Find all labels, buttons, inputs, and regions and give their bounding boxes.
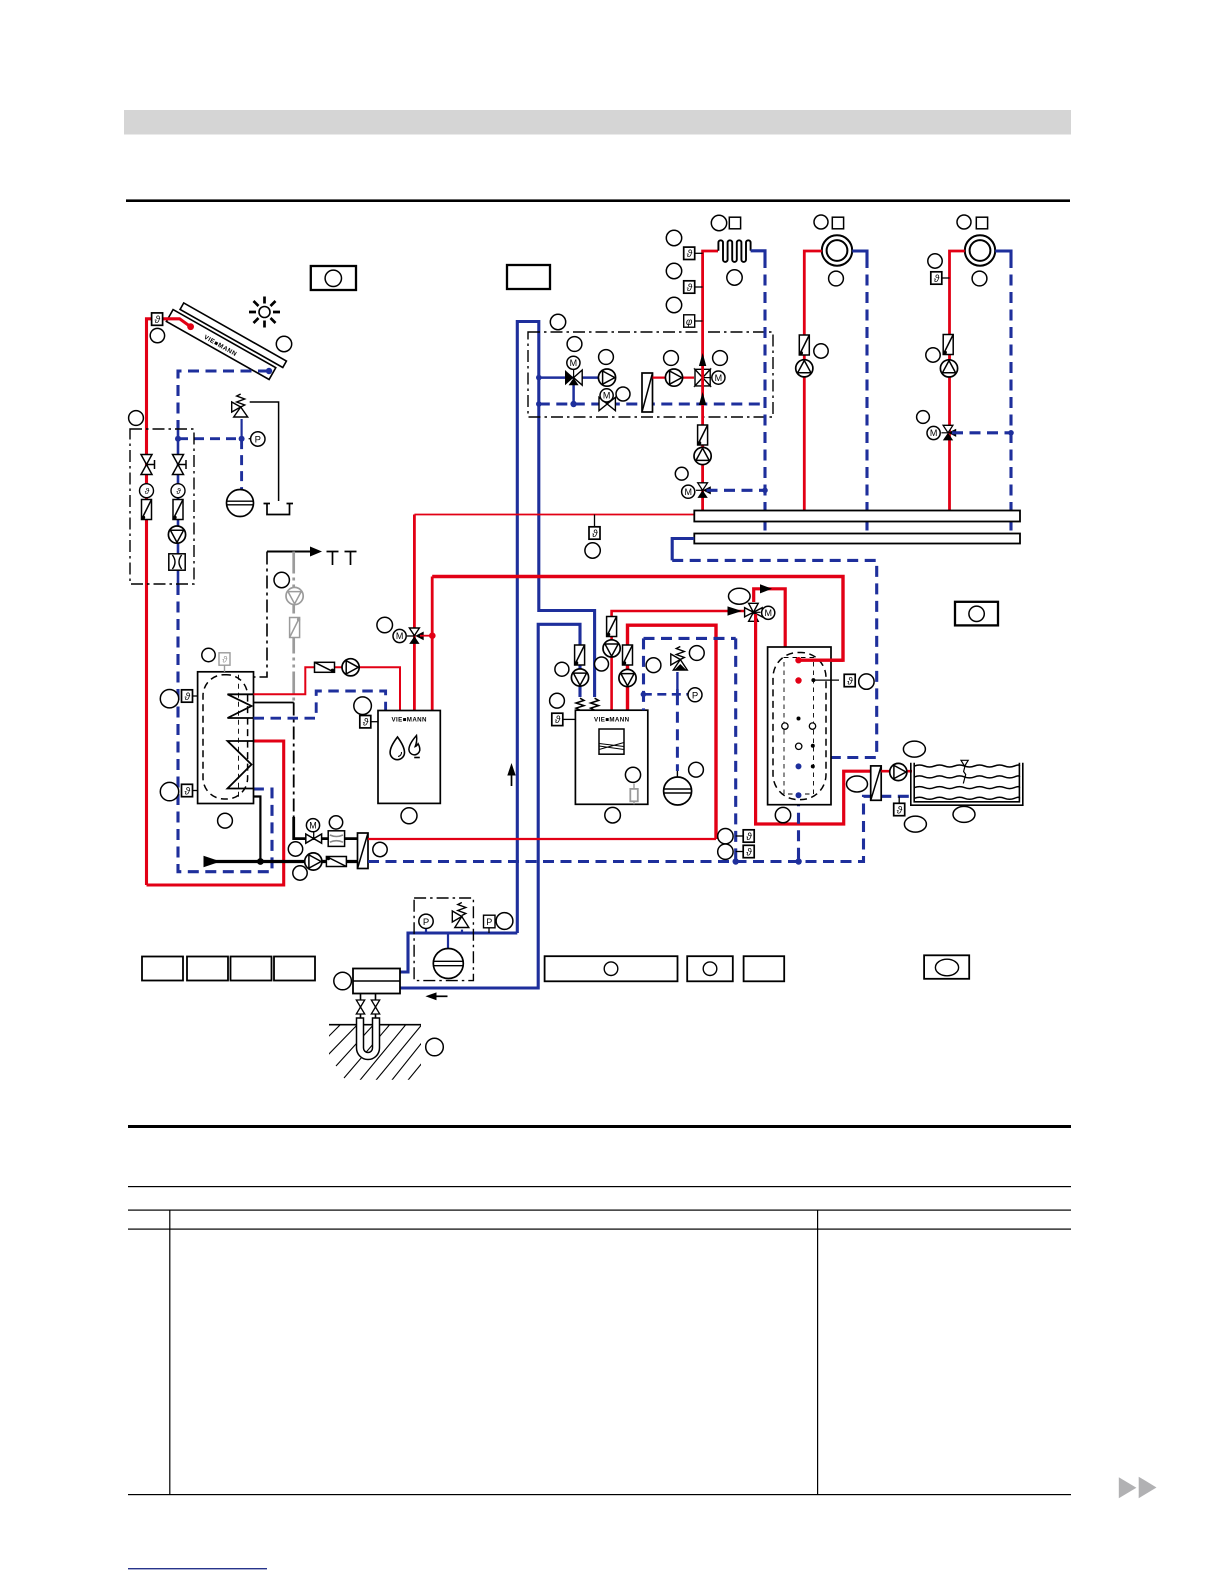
wire dash-dot to tank top (black) (254, 552, 268, 678)
legend box 3 (right, with circle) (955, 602, 998, 626)
arrow HP flow (728, 606, 743, 615)
mixing valve module blue (M above) (565, 370, 574, 385)
DHW tank inner dashed vertical divider (238, 675, 240, 799)
wire HP vessel stub (black) (676, 771, 678, 777)
valve 3way circuit3 (943, 425, 953, 433)
label circle return upper (718, 829, 733, 844)
label circle borehole (426, 1038, 444, 1056)
wire manifold return to buffer (blue dashed) (672, 560, 877, 766)
wire pool HX to pump (red) (881, 770, 912, 773)
node HP gauge left (641, 692, 647, 698)
label circle return lower (718, 844, 733, 859)
label circle circuit3 check (926, 348, 940, 362)
legend rect row 2 (187, 957, 228, 981)
table bottom line (128, 1494, 1071, 1495)
shutoff valve solar return (173, 455, 187, 475)
buffer tank inner vessel (773, 653, 826, 800)
label circle HP safety right (689, 646, 704, 661)
wire discharge line (black) (250, 402, 279, 501)
legend rect row 3 (231, 957, 272, 981)
square circuit1 top (729, 217, 740, 229)
gauge P HP (688, 688, 702, 702)
HP damper left (576, 698, 584, 710)
wire riser circuit3 (red) (950, 251, 965, 511)
label circle DHW valve (329, 816, 342, 829)
arrow riser up 2 (699, 392, 706, 405)
buffer inner divider (784, 658, 814, 795)
wire HP gauge line (blue dashed) (643, 693, 688, 696)
sensor return lower (736, 851, 743, 853)
wire buffer bottom (blue dashed) (797, 795, 800, 861)
legend rect row 4 (274, 957, 315, 981)
node module return left (536, 401, 542, 407)
manifold bar flow (694, 511, 1020, 522)
wire tank upper coil flow (red) to boiler (254, 667, 401, 710)
label circle module top (550, 314, 565, 329)
gauge P solar (249, 438, 251, 440)
sensor tank upper (193, 695, 198, 697)
sensor HP (563, 718, 576, 720)
wire HP safety stub (blue) (676, 672, 678, 694)
arrow buffer feed (760, 584, 772, 593)
square circuit2 top (832, 217, 843, 229)
sensor riser phi (695, 320, 703, 322)
pump tank loop (342, 659, 359, 676)
sensor boiler (371, 721, 378, 723)
safety valve brine (461, 930, 463, 933)
label circle module valve (567, 337, 582, 352)
wire solar return (collector to station, blue dashed) (178, 371, 269, 429)
wire black dash-dot riser to mixer (293, 703, 295, 819)
pump HP return (619, 669, 636, 686)
oval pool HX left (847, 776, 868, 792)
label circle HP box left (646, 658, 661, 673)
svg-text:VIE■MANN: VIE■MANN (594, 717, 630, 724)
wire tank coil lower out (black) (254, 797, 261, 862)
label circle below HP (605, 807, 621, 823)
check valve circuit1 (698, 425, 708, 445)
valve 3way boiler (409, 628, 419, 636)
wire circuit3 valve branch (blue dashed) (952, 431, 1011, 434)
label circle circuit3 sensor (928, 254, 942, 268)
pump HP flow (603, 640, 620, 657)
sensor pool (898, 796, 900, 803)
safety valve HP (671, 647, 688, 671)
footnote rule (blue) (128, 1568, 267, 1569)
wire HP return (red thick) (628, 625, 717, 839)
label circle module bowtie (616, 387, 630, 401)
wire safety valve stub (blue) (241, 419, 243, 439)
label circle below coil1 (727, 270, 742, 285)
sensor riser theta1 (695, 252, 703, 254)
wire riser circuit2 (red) (804, 251, 822, 511)
wire gray riser (gray dash-dot) (292, 552, 295, 703)
node DHW junction (257, 858, 264, 865)
shutoff valve solar flow (141, 455, 155, 475)
wire boiler second riser (red) (431, 577, 434, 711)
HP expansion dashed box (644, 638, 736, 861)
label circle below buffer (775, 807, 790, 822)
swimming pool basin (911, 763, 1023, 805)
oval pool pump top (903, 741, 925, 757)
legend long rect circle (604, 962, 618, 976)
node boiler valve junction (429, 632, 436, 639)
label circle tank upper sensor (160, 690, 178, 708)
wire buffer top feed (red) (799, 659, 844, 662)
wire expansion branch (blue dashed) (178, 439, 242, 490)
svg-text:P: P (423, 917, 429, 928)
tank upper coil (228, 694, 254, 718)
legend box 3 circle (969, 606, 984, 621)
sensor return upper (736, 835, 743, 837)
solar station dash-dot box (130, 429, 194, 584)
drain funnel (264, 504, 294, 515)
plate heat exchanger pool (871, 766, 882, 800)
wire HP valve down to pool (red) (756, 614, 871, 824)
wire module blue feed (539, 376, 598, 379)
DHW tank inner vessel (dashed) (203, 675, 248, 799)
wire solar bottom run (red) (147, 741, 284, 885)
wire manifold feed (red) (414, 514, 694, 516)
wire solar flow (collector to solar station, red) (147, 319, 191, 885)
label circle DHW HX (373, 842, 387, 856)
table line 4 (128, 1229, 1071, 1230)
fan coil circuit3 (965, 235, 995, 265)
wire riser circuit1 return (blue dashed) (751, 251, 765, 257)
label circle circuit3 top (957, 215, 971, 229)
sensor tank lower (193, 790, 198, 792)
safety valve solar (232, 394, 248, 417)
label circle theta1 (666, 230, 681, 245)
legend box 1 circle (325, 270, 341, 286)
oval pool below2 (953, 806, 975, 822)
label circle circuit3 valve (917, 411, 930, 424)
svg-text:P: P (486, 917, 492, 927)
top rule (126, 199, 1070, 202)
wire circuit1 valve branch (blue dashed) (707, 489, 766, 492)
pool water waves (915, 765, 1020, 799)
svg-text:VIE■MANN: VIE■MANN (391, 717, 427, 724)
node junction dashed (175, 436, 181, 442)
label circle theta2 (666, 263, 681, 278)
wire alternative source line (black) (267, 551, 312, 553)
mixing valve M black (DHW) (306, 834, 322, 843)
label circle HP sensor (550, 693, 565, 708)
label circle module pump red (664, 351, 679, 366)
boiler box (378, 711, 440, 804)
expansion vessel HP (664, 777, 692, 805)
label circle tank top (202, 648, 215, 661)
node buffer bottom port (796, 792, 802, 798)
label circle phi (666, 297, 681, 312)
legend rect far right (924, 955, 969, 979)
wire circuit2 return (blue dashed) (852, 251, 867, 257)
label circle circuit1 top (711, 215, 726, 230)
check valve HP flow (607, 617, 617, 637)
pump pool (890, 763, 907, 780)
wire module return dashed (blue) (539, 402, 765, 405)
node collector return port (266, 368, 272, 374)
plate heat exchanger module (642, 373, 653, 412)
HP gray component (633, 784, 635, 805)
label circle manifold sensor (585, 543, 600, 558)
flow meter DHW (328, 831, 344, 847)
label circle brine P right (496, 913, 513, 930)
node junction P (239, 436, 245, 442)
legend rect row 1 (142, 957, 183, 981)
expansion vessel brine (433, 949, 463, 979)
label circle below coil3 (972, 271, 987, 286)
wire module red (653, 377, 695, 379)
wire brine vessel stub (blue) (447, 933, 449, 949)
borehole shutoff valves (356, 1000, 364, 1014)
fan coil circuit2 (822, 235, 852, 265)
tank top sensor (gray) (224, 666, 226, 672)
wire module valve branch (572, 384, 575, 404)
borehole pipes (361, 994, 376, 1020)
label circle tank lower sensor (160, 782, 178, 800)
wire HP to buffer jog (red) (754, 589, 799, 681)
wire brine bottom left (blue) (400, 933, 517, 972)
wire riser circuit1 (red) (703, 251, 718, 511)
wire buffer flow line (red thick) (432, 577, 843, 661)
wire boiler valve link (red) (420, 635, 432, 637)
HP compressor symbol (599, 729, 624, 754)
pump DHW (305, 853, 322, 870)
label circle boiler valve (377, 617, 393, 633)
mixing valve module red (4-way cross) (695, 369, 710, 386)
node riser1 dashed junction (762, 488, 768, 494)
svg-text:ϑ: ϑ (176, 487, 181, 496)
legend box 1 (311, 266, 356, 290)
brine dash-dot box (414, 898, 473, 981)
wire HX to HP return (red) (368, 838, 716, 840)
valve 3way circuit1 (698, 483, 708, 491)
arrow riser up 1 (699, 353, 706, 366)
node module feed (536, 375, 542, 381)
wire HP brine return (blue) (400, 624, 580, 988)
HP damper right (591, 698, 599, 710)
svg-text:ϑ: ϑ (145, 487, 150, 496)
arrow alternative source (310, 547, 322, 557)
pump module red (665, 369, 682, 386)
pump circuit2 (796, 360, 813, 377)
label circle DHW pump upper (288, 842, 302, 856)
pump circuit3 (940, 360, 957, 377)
label circle DHW pump lower (293, 866, 307, 880)
sensor P square brine (488, 928, 490, 933)
oval pool below1 (904, 816, 926, 832)
legend far right ellipse (935, 959, 958, 976)
expansion vessel solar (227, 490, 254, 517)
module dash-dot box (528, 332, 773, 417)
table thick rule (128, 1125, 1071, 1128)
label circle brine separator (334, 972, 352, 990)
manifold bar return (694, 534, 1020, 544)
thermometer solar flow (140, 484, 154, 498)
table line 2 (128, 1186, 1071, 1187)
label circle boiler sensor (354, 697, 372, 715)
check valve solar flow (142, 500, 152, 520)
node buffer return port (796, 763, 802, 769)
label circle HP vessel right (689, 762, 704, 777)
pump HP brine (571, 669, 588, 686)
flow meter solar (169, 554, 185, 570)
brine separator box (353, 969, 400, 994)
table vertical divider right (817, 1210, 818, 1496)
radiator coil circuit1 (718, 240, 750, 262)
legend rect right (744, 956, 785, 981)
legend rect mid circle (703, 962, 717, 976)
label circle circuit2 top (814, 215, 828, 229)
legend box 2 (507, 265, 550, 289)
gauge P brine (425, 929, 427, 934)
boiler water drop icon (390, 737, 404, 760)
sensor manifold feed (594, 515, 596, 528)
DHW tank outer (198, 672, 254, 804)
check valve HP brine (575, 645, 585, 665)
boiler flame icon (409, 736, 420, 755)
borehole U-tube (357, 1018, 380, 1060)
label circle buffer sensor (859, 674, 874, 689)
label circle below boiler (401, 808, 417, 824)
label circle circuit2 check (814, 344, 828, 358)
legend long rect (545, 956, 678, 981)
label circle circuit1 valve (675, 467, 688, 480)
T symbols alternative source (327, 552, 357, 566)
check valve DHW (326, 857, 346, 867)
pump gray (286, 587, 303, 604)
wire station blue (solid inside station) (177, 429, 180, 584)
label circle HP left (555, 662, 569, 676)
check valve circuit3 (943, 335, 953, 355)
check valve tank loop (315, 662, 335, 672)
arrow brine return (425, 992, 436, 1000)
check valve solar return (173, 500, 183, 520)
table vertical divider left (169, 1210, 170, 1496)
node buffer port2 (795, 677, 801, 683)
wire solar return lower (station to storage tank, blue dashed) (178, 584, 272, 872)
thermometer solar return (171, 484, 185, 498)
label circle gray pump (274, 572, 289, 587)
oval HP valve (729, 588, 751, 604)
table line 3 (128, 1210, 1071, 1211)
sensor collector (152, 313, 163, 326)
square circuit3 top (976, 217, 987, 229)
wire mixer line (black) (294, 817, 358, 839)
svg-text:P: P (255, 435, 261, 446)
valve M module return (bowtie) (599, 397, 615, 410)
label circle module pump blue (599, 350, 614, 365)
check valve gray (290, 618, 301, 638)
node module valve branch (570, 401, 576, 407)
pump module blue (598, 369, 615, 386)
arrow brine up (511, 771, 513, 786)
ground hatch (320, 1020, 436, 1085)
check valve HP return (623, 645, 633, 665)
node collector flow port (187, 323, 194, 330)
HP unit box (575, 710, 647, 804)
wire tank coil upper out (black) (254, 702, 294, 704)
wire brine U riser (blue) (517, 322, 594, 934)
label circle module valve red (713, 351, 728, 366)
node big return at buffer (795, 858, 801, 864)
node riser3 dashed junction (1008, 430, 1014, 436)
wire HP vessel line (blue dashed) (676, 694, 679, 771)
ground surface line (329, 1024, 421, 1026)
tank lower coil (228, 741, 254, 789)
arrow DHW main (204, 856, 221, 867)
label circle below tank (218, 813, 233, 828)
wire DHW main (black thick) (212, 860, 358, 863)
check valve circuit2 (799, 335, 809, 355)
wire manifold return elbow (blue) (672, 539, 694, 561)
label circle below coil2 (829, 271, 844, 286)
valve 3way HP out (745, 603, 763, 621)
wire big return (blue dashed) (368, 796, 912, 861)
label circle HP pump red (595, 657, 609, 671)
legend rect mid (687, 956, 733, 981)
wire HP flow (red) (612, 611, 747, 710)
pump circuit1 (694, 447, 711, 464)
node HP gauge mid (676, 689, 679, 700)
buffer port dots (797, 717, 801, 721)
pump solar (168, 526, 185, 543)
plate heat exchanger DHW (358, 833, 369, 869)
label circle station left (129, 411, 144, 426)
sensor riser theta2 (695, 286, 703, 288)
wire circuit3 return (blue dashed) (995, 251, 1011, 257)
sun symbol (249, 297, 280, 328)
buffer tank outer (768, 647, 831, 805)
label circle collector right (276, 336, 291, 351)
sensor circuit3 (942, 277, 950, 279)
wire boiler flow riser (red) (413, 515, 416, 711)
pool level mark (961, 760, 968, 766)
solar collector panel (166, 300, 286, 382)
label circle collector sensor (150, 328, 164, 342)
pager arrows (1119, 1477, 1137, 1498)
gray header bar (124, 110, 1071, 135)
HP inner circle (625, 767, 640, 782)
node buffer port1 (795, 657, 801, 663)
sensor buffer (813, 679, 839, 681)
wire tank coil return to boiler (blue dashed) (254, 691, 386, 718)
svg-text:P: P (692, 690, 698, 701)
node big return at HP box (733, 858, 739, 864)
svg-text:φ: φ (686, 317, 693, 328)
